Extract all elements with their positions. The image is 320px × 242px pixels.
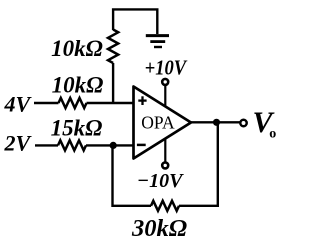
svg-text:4V: 4V <box>4 92 33 117</box>
svg-text:OPA: OPA <box>141 112 175 132</box>
svg-text:30kΩ: 30kΩ <box>131 215 187 242</box>
svg-text:10kΩ: 10kΩ <box>52 73 104 98</box>
svg-text:15kΩ: 15kΩ <box>51 115 103 140</box>
svg-text:+10V: +10V <box>145 56 188 80</box>
svg-text:o: o <box>269 126 276 141</box>
svg-text:−10V: −10V <box>137 170 184 192</box>
svg-text:10kΩ: 10kΩ <box>51 36 103 61</box>
svg-text:2V: 2V <box>4 131 33 156</box>
